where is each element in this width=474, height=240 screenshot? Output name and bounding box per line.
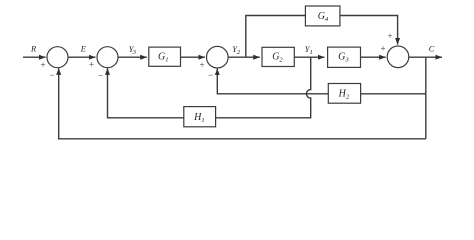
wire G1 to S3 bbox=[181, 56, 206, 58]
svg-text:+: + bbox=[199, 60, 204, 70]
svg-text:E: E bbox=[80, 45, 86, 54]
wire H1 output to S2 bottom (minus) bbox=[108, 68, 184, 118]
svg-text:C: C bbox=[429, 45, 435, 54]
svg-text:−: − bbox=[208, 70, 213, 80]
svg-text:−: − bbox=[49, 70, 54, 80]
wire Y2 tap up to G4 input bbox=[246, 16, 306, 58]
wire C tap down bbox=[425, 57, 427, 139]
wire H2 output to S3 bottom (minus) bbox=[217, 69, 328, 94]
svg-text:−: − bbox=[98, 71, 103, 81]
wire G2 to G3 (node Y1) bbox=[294, 56, 324, 58]
svg-text:Y2: Y2 bbox=[232, 45, 241, 56]
summing junction S4 bbox=[387, 46, 409, 68]
block G2 bbox=[262, 47, 294, 66]
svg-text:R: R bbox=[30, 45, 36, 54]
block G4 bbox=[305, 6, 340, 26]
summing junction S3 bbox=[207, 46, 229, 68]
wire C tap to H2 input bbox=[361, 93, 426, 95]
wire S2 to G1 bbox=[118, 56, 147, 58]
wire R input bbox=[23, 56, 46, 58]
wire Y1 tap down with hop over H2 line bbox=[216, 57, 311, 118]
svg-text:Y3: Y3 bbox=[129, 45, 137, 56]
summing junction S2 bbox=[97, 47, 118, 68]
wire G4 output down into S4 top bbox=[340, 16, 398, 45]
summing junction S1 bbox=[47, 47, 68, 68]
block H1 bbox=[184, 107, 216, 127]
svg-text:+: + bbox=[89, 59, 94, 69]
wire outer feedback loop to S1 bottom (minus) bbox=[59, 68, 426, 139]
block G1 bbox=[149, 47, 181, 66]
wire S3 to G2 (node Y2) bbox=[228, 56, 260, 58]
wire S4 to C output bbox=[409, 56, 442, 58]
wire G3 to S4 bbox=[361, 56, 386, 58]
svg-text:Y1: Y1 bbox=[305, 45, 313, 56]
block H2 bbox=[328, 84, 360, 104]
svg-text:+: + bbox=[387, 31, 392, 41]
wire S1 to S2 bbox=[68, 56, 96, 58]
svg-text:+: + bbox=[40, 60, 45, 70]
block G3 bbox=[328, 47, 361, 67]
svg-text:+: + bbox=[380, 44, 385, 54]
